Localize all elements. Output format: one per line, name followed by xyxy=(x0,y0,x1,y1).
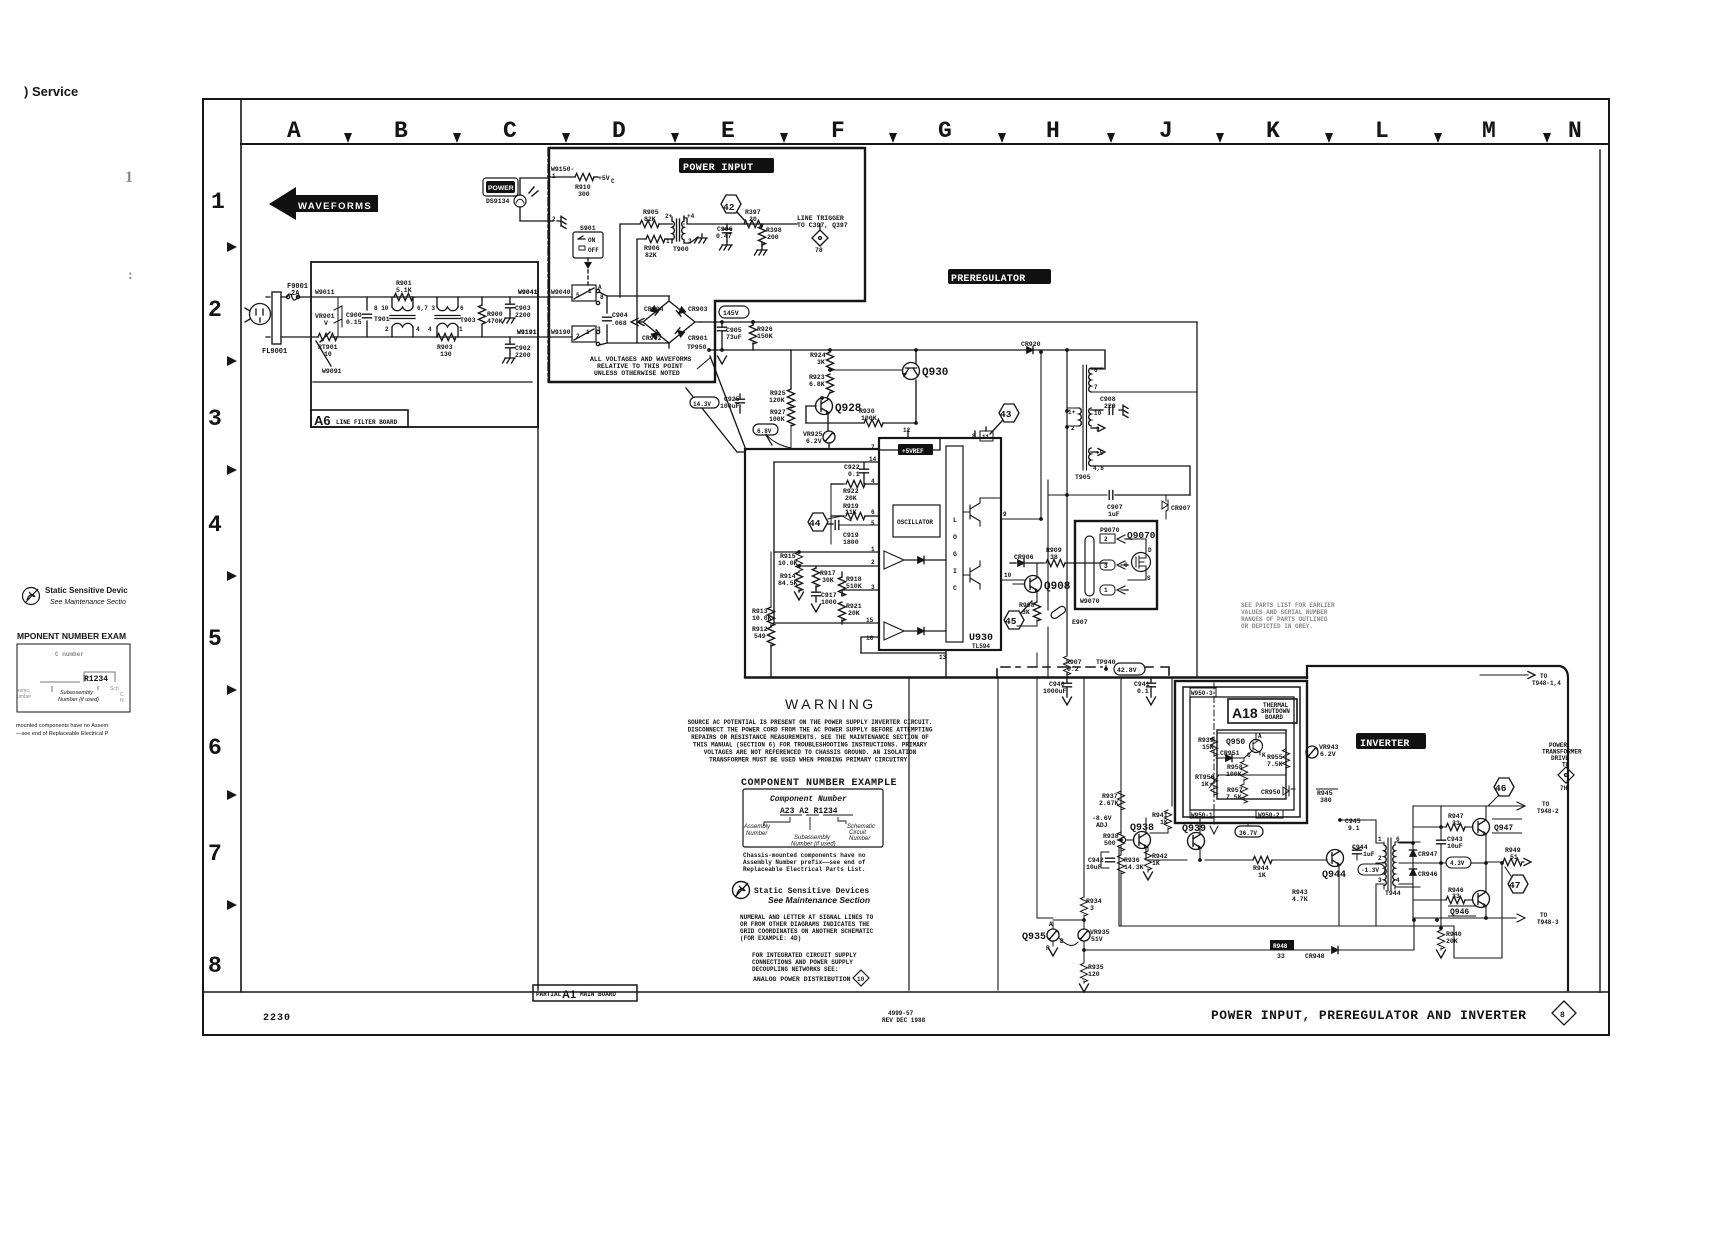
svg-text:78: 78 xyxy=(815,247,823,254)
svg-text:33: 33 xyxy=(1452,893,1460,900)
svg-text:S: S xyxy=(1147,575,1151,582)
svg-text:4: 4 xyxy=(416,326,420,333)
VR935 xyxy=(1078,929,1090,941)
svg-text:120: 120 xyxy=(1088,971,1100,978)
svg-text:6.2V: 6.2V xyxy=(1320,751,1336,758)
svg-text:2: 2 xyxy=(208,297,222,323)
svg-text:D: D xyxy=(612,118,626,144)
svg-text:3: 3 xyxy=(871,584,875,591)
svg-text:5: 5 xyxy=(871,520,875,527)
svg-text:6: 6 xyxy=(1094,367,1098,374)
svg-text:T905: T905 xyxy=(1075,474,1091,481)
svg-text:W950-2: W950-2 xyxy=(1258,812,1280,819)
TO T948-3 wire xyxy=(1413,914,1525,922)
svg-text:MAIN BOARD: MAIN BOARD xyxy=(580,991,616,998)
P9070 pin 2 box xyxy=(1100,534,1115,543)
C944 xyxy=(1353,850,1362,854)
svg-text:470K: 470K xyxy=(487,318,503,325)
svg-text:K: K xyxy=(1262,752,1266,759)
svg-text:8 10: 8 10 xyxy=(374,305,389,312)
A18 inner circuit box xyxy=(1217,730,1286,799)
CR907 zener xyxy=(1165,494,1167,496)
svg-text:R941: R941 xyxy=(1152,812,1168,819)
svg-text:CONNECTIONS AND POWER SUPPLY: CONNECTIONS AND POWER SUPPLY xyxy=(752,959,853,966)
row tick marks on left border xyxy=(227,242,237,910)
svg-text:R900: R900 xyxy=(487,311,503,318)
svg-text:TO: TO xyxy=(1542,801,1550,808)
svg-text:Assembly Number prefix——see en: Assembly Number prefix——see end of xyxy=(743,859,866,866)
svg-text:R927: R927 xyxy=(770,409,786,416)
svg-text:4: 4 xyxy=(208,512,222,538)
svg-text:0.47: 0.47 xyxy=(716,233,732,240)
pin 13 + bottom wire xyxy=(861,650,946,677)
R921 xyxy=(838,602,845,621)
svg-text:SEE PARTS LIST FOR EARLIER: SEE PARTS LIST FOR EARLIER xyxy=(1241,602,1335,609)
sheet number diamond xyxy=(1552,1001,1576,1025)
+5VREF box xyxy=(898,444,933,455)
power lamp DS9134 xyxy=(514,195,526,207)
svg-text:12: 12 xyxy=(903,427,911,434)
svg-text:DECOUPLING NETWORKS SEE:: DECOUPLING NETWORKS SEE: xyxy=(752,966,838,973)
R942 xyxy=(1144,851,1151,870)
CR906 R909 wire xyxy=(1010,562,1016,564)
svg-text:7: 7 xyxy=(208,841,222,867)
svg-text:1: 1 xyxy=(1378,836,1382,843)
svg-text:A23 A2 R1234: A23 A2 R1234 xyxy=(780,807,838,816)
svg-text:WARNING: WARNING xyxy=(785,696,877,712)
dashed bracket xyxy=(997,667,1102,678)
PARTIAL A1 MAIN BOARD xyxy=(533,985,637,1001)
R948 inverse label xyxy=(1270,940,1294,950)
svg-text:GRID COORDINATES ON ANOTHER SC: GRID COORDINATES ON ANOTHER SCHEMATIC xyxy=(740,928,874,935)
svg-text:C907: C907 xyxy=(1107,504,1123,511)
svg-text:1: 1 xyxy=(459,326,463,333)
svg-text:G: G xyxy=(953,551,957,558)
VR925 zener xyxy=(823,431,835,443)
transistor symbols in logic output xyxy=(970,498,980,526)
svg-text:R906: R906 xyxy=(644,245,660,252)
TO T948-1,4 arrow top xyxy=(1480,674,1528,676)
svg-text:VR925: VR925 xyxy=(803,431,823,438)
svg-text:R936: R936 xyxy=(1124,857,1140,864)
Q928 transistor xyxy=(816,398,833,415)
svg-text:120K: 120K xyxy=(769,397,785,404)
R935 xyxy=(1080,963,1087,982)
svg-text:Component Number: Component Number xyxy=(770,795,847,804)
svg-text:C941: C941 xyxy=(1134,681,1150,688)
svg-text:VR935: VR935 xyxy=(1090,929,1110,936)
diode CR951 xyxy=(1226,754,1232,761)
svg-text:WAVEFORMS: WAVEFORMS xyxy=(298,201,372,212)
svg-text:R908: R908 xyxy=(1019,602,1035,609)
svg-text:4.3V: 4.3V xyxy=(1450,860,1465,867)
CR920 diode xyxy=(1027,346,1033,353)
svg-text:13: 13 xyxy=(939,654,947,661)
hexagon 45 xyxy=(1004,611,1024,629)
svg-text:Number: Number xyxy=(746,831,768,837)
svg-text:Number (if used): Number (if used) xyxy=(791,842,836,848)
svg-text:R923: R923 xyxy=(809,374,825,381)
svg-text:CR950: CR950 xyxy=(1261,789,1281,796)
A1 board boundary vertical xyxy=(537,262,539,990)
svg-text:INVERTER: INVERTER xyxy=(1360,739,1410,750)
svg-text:T900: T900 xyxy=(673,246,689,253)
svg-text:3K: 3K xyxy=(1022,609,1030,616)
svg-text:2230: 2230 xyxy=(263,1013,291,1024)
svg-text:1000: 1000 xyxy=(821,599,837,606)
svg-text:G: G xyxy=(1247,752,1251,759)
145V oval xyxy=(719,306,749,318)
svg-text:C: C xyxy=(503,118,517,144)
svg-text:Subassembly: Subassembly xyxy=(60,690,94,696)
svg-text:R921: R921 xyxy=(846,603,862,610)
svg-text:38: 38 xyxy=(1050,554,1058,561)
W950 connectors xyxy=(1190,688,1216,697)
svg-text:A18: A18 xyxy=(1232,705,1258,721)
R938 xyxy=(1117,832,1124,851)
top corner bracket right xyxy=(1544,666,1553,700)
svg-text:TO C397, Q397: TO C397, Q397 xyxy=(797,222,848,229)
T944 pin wires xyxy=(1376,843,1384,926)
R925 R927 resistors xyxy=(790,350,792,389)
svg-text:7.5K: 7.5K xyxy=(1226,794,1242,801)
svg-text:1uF: 1uF xyxy=(1108,511,1120,518)
varistor VR901 xyxy=(334,297,342,337)
diode CR950 xyxy=(1283,786,1295,796)
svg-text:R948: R948 xyxy=(1273,943,1288,950)
C922 xyxy=(863,462,865,468)
svg-text:D: D xyxy=(1148,547,1152,554)
svg-text:A: A xyxy=(287,118,301,144)
resistor R939 xyxy=(1210,737,1217,756)
svg-text:30K: 30K xyxy=(822,577,834,584)
svg-text:Number (if used): Number (if used) xyxy=(58,697,99,703)
svg-text:3: 3 xyxy=(1090,905,1094,912)
svg-text:RT950: RT950 xyxy=(1195,774,1215,781)
svg-text:R917: R917 xyxy=(820,570,836,577)
svg-text:7: 7 xyxy=(871,444,875,451)
OSCILLATOR box xyxy=(893,505,940,537)
svg-text:C945: C945 xyxy=(1345,818,1361,825)
RT901 thermistor xyxy=(318,333,337,340)
36.7V oval xyxy=(1247,823,1249,826)
svg-text:TO: TO xyxy=(1562,762,1570,769)
svg-text:130: 130 xyxy=(440,351,452,358)
svg-text:549: 549 xyxy=(754,633,766,640)
static sensitive icon (margin) xyxy=(23,588,40,605)
svg-text:R934: R934 xyxy=(1086,898,1102,905)
R924 resistor xyxy=(829,350,831,352)
transistor Q947 xyxy=(1473,819,1490,836)
svg-text:C: C xyxy=(611,178,615,185)
svg-text:TL594: TL594 xyxy=(972,643,990,650)
svg-text:POWER INPUT: POWER INPUT xyxy=(683,163,753,174)
svg-text:LINE FILTER BOARD: LINE FILTER BOARD xyxy=(336,419,398,426)
svg-text:100uF: 100uF xyxy=(720,403,740,410)
svg-text:1K: 1K xyxy=(1201,781,1209,788)
svg-text:COMPONENT NUMBER EXAMPLE: COMPONENT NUMBER EXAMPLE xyxy=(741,778,897,789)
svg-text:73uF: 73uF xyxy=(726,334,742,341)
comparator 2 xyxy=(884,622,904,640)
R949 out xyxy=(1486,861,1503,863)
svg-text:R918: R918 xyxy=(846,576,862,583)
diamond 78 xyxy=(812,224,828,246)
svg-text:W9191: W9191 xyxy=(517,329,537,336)
svg-text:6: 6 xyxy=(460,305,464,312)
svg-text:VR943: VR943 xyxy=(1319,744,1339,751)
svg-text:RANGES OF PARTS OUTLINED: RANGES OF PARTS OUTLINED xyxy=(1241,616,1328,623)
svg-text:C943: C943 xyxy=(1447,836,1463,843)
C942 R936 xyxy=(1101,852,1109,868)
svg-text:Q950: Q950 xyxy=(1226,738,1245,747)
Q939 xyxy=(1188,833,1205,850)
svg-text:OR FROM OTHER DIAGRAMS INDICAT: OR FROM OTHER DIAGRAMS INDICATES THE xyxy=(740,921,870,928)
svg-text:CR920: CR920 xyxy=(1021,341,1041,348)
svg-text:4999-57: 4999-57 xyxy=(888,1010,914,1017)
POWER button xyxy=(483,178,518,196)
resistor R947 xyxy=(1413,826,1446,828)
pin 8 11 xyxy=(980,431,993,441)
pins 1,2 wires xyxy=(774,552,879,566)
svg-text:A: A xyxy=(1258,733,1262,740)
resistor R957 xyxy=(1240,784,1247,803)
svg-text:Chassis-mounted components hav: Chassis-mounted components have no xyxy=(743,852,866,859)
svg-text:See Maintenance Sectio: See Maintenance Sectio xyxy=(50,599,126,606)
svg-text:C903: C903 xyxy=(515,305,531,312)
svg-text:10: 10 xyxy=(324,351,332,358)
14.3V oval xyxy=(690,397,719,408)
preregulator box left edge + top xyxy=(745,449,879,676)
svg-text:CR904: CR904 xyxy=(644,306,664,313)
svg-text:PARTIAL: PARTIAL xyxy=(536,991,562,998)
svg-text:44: 44 xyxy=(809,518,821,529)
svg-text:W9150-: W9150- xyxy=(551,166,574,173)
svg-text:15: 15 xyxy=(866,617,874,624)
svg-text:2+: 2+ xyxy=(665,213,673,220)
A18 board nested boxes xyxy=(1175,681,1307,823)
PREREGULATOR title xyxy=(948,269,1051,284)
svg-text:C902: C902 xyxy=(515,345,531,352)
svg-text:7.5K: 7.5K xyxy=(1267,761,1283,768)
junction dots xyxy=(751,320,1504,930)
svg-text:R940: R940 xyxy=(1446,931,1462,938)
svg-text:1: 1 xyxy=(588,288,592,295)
svg-text:K: K xyxy=(1266,118,1280,144)
E907 fusible link xyxy=(1047,602,1049,677)
T901 transformer xyxy=(392,297,413,337)
power transformer drive diamond xyxy=(1558,767,1574,783)
svg-text:20: 20 xyxy=(749,216,757,223)
svg-text:1K: 1K xyxy=(1160,819,1168,826)
R901 resistor xyxy=(394,293,413,300)
svg-text:CR948: CR948 xyxy=(1305,953,1325,960)
C904 cap xyxy=(606,296,608,343)
power input section outline xyxy=(549,148,865,382)
svg-text:1K: 1K xyxy=(1152,860,1160,867)
CR947 CR946 column on x=1413 xyxy=(1399,806,1413,918)
svg-text:43: 43 xyxy=(1000,409,1012,420)
hexagon 46 xyxy=(1494,778,1514,796)
R944 + wire to Q944 xyxy=(1205,859,1253,861)
svg-text:2: 2 xyxy=(1104,536,1108,543)
svg-text:O: O xyxy=(953,534,957,541)
svg-text:R939: R939 xyxy=(1198,737,1214,744)
svg-text:CR902: CR902 xyxy=(642,335,662,342)
static sensitive icon xyxy=(733,882,750,899)
inner bottom line xyxy=(203,991,1609,993)
svg-text:100K: 100K xyxy=(861,415,877,422)
Q908 xyxy=(1025,576,1042,593)
svg-text:E: E xyxy=(721,118,735,144)
svg-text:150K: 150K xyxy=(757,333,773,340)
INVERTER title xyxy=(1356,733,1426,749)
svg-text:A6: A6 xyxy=(314,413,331,428)
hexagon 44 + C919 to pin 5 xyxy=(808,513,828,531)
svg-text:500: 500 xyxy=(1104,840,1116,847)
svg-text:2.67K: 2.67K xyxy=(1099,800,1119,807)
svg-text:11K: 11K xyxy=(845,509,857,516)
svg-text:2: 2 xyxy=(552,216,556,223)
svg-text:R909: R909 xyxy=(1046,547,1062,554)
A6 label box xyxy=(311,410,408,427)
op-amp U930 outline xyxy=(879,438,1001,650)
svg-text:Replaceable Electrical Parts L: Replaceable Electrical Parts List. xyxy=(743,866,865,873)
svg-text:6.8K: 6.8K xyxy=(809,381,825,388)
svg-text:A: A xyxy=(1049,921,1053,928)
W9070 connector oval xyxy=(1085,536,1094,596)
svg-text:C922: C922 xyxy=(844,464,860,471)
svg-text:T944: T944 xyxy=(1385,890,1401,897)
svg-text:W9040: W9040 xyxy=(551,289,571,296)
R922 to pin 4 xyxy=(831,483,844,485)
svg-text:W9091: W9091 xyxy=(322,368,342,375)
svg-text:16: 16 xyxy=(866,635,874,642)
svg-text:CR947: CR947 xyxy=(1418,851,1438,858)
svg-text:14: 14 xyxy=(869,456,877,463)
svg-text:220: 220 xyxy=(1104,403,1116,410)
svg-text:11: 11 xyxy=(982,434,990,441)
R907 + TP940 + 42.8V xyxy=(1066,655,1068,657)
svg-text:UNLESS OTHERWISE NOTED: UNLESS OTHERWISE NOTED xyxy=(594,370,680,377)
svg-text:umber: umber xyxy=(17,694,32,700)
inner box lines xyxy=(1119,847,1312,926)
svg-text:R924: R924 xyxy=(810,352,826,359)
svg-text:2200: 2200 xyxy=(515,312,531,319)
svg-text::: : xyxy=(128,268,133,283)
TP950 + ground xyxy=(709,349,1028,351)
thermistor RT950 xyxy=(1210,776,1217,795)
svg-text:VOLTAGES ARE NOT REFERENCED TO: VOLTAGES ARE NOT REFERENCED TO CHASSIS G… xyxy=(704,749,917,756)
svg-text:Q939: Q939 xyxy=(1182,824,1206,835)
svg-text:W9011: W9011 xyxy=(315,289,335,296)
svg-text:C904: C904 xyxy=(612,312,628,319)
C907 wire xyxy=(1048,480,1107,602)
svg-text:2A: 2A xyxy=(291,290,300,298)
svg-text:T948-3: T948-3 xyxy=(1537,919,1559,926)
svg-text:BOARD: BOARD xyxy=(1265,714,1283,721)
W9150 vertical wire xyxy=(547,148,549,382)
C925 cap xyxy=(739,394,741,413)
resistor R946 xyxy=(1413,899,1446,901)
R908 xyxy=(1010,588,1013,598)
C941 xyxy=(1150,678,1152,682)
svg-text:ON: ON xyxy=(588,237,596,244)
svg-text:C905: C905 xyxy=(726,327,742,334)
svg-text:R915: R915 xyxy=(780,553,796,560)
wire pin13 to bottom xyxy=(944,652,946,654)
svg-text:C908: C908 xyxy=(1100,396,1116,403)
column letters xyxy=(287,118,1582,144)
R913 R912 chain xyxy=(762,564,775,566)
svg-text:14.3K: 14.3K xyxy=(1124,864,1144,871)
svg-text:C940: C940 xyxy=(1049,681,1065,688)
svg-text:NUMERAL AND LETTER AT SIGNAL L: NUMERAL AND LETTER AT SIGNAL LINES TO xyxy=(740,914,874,921)
T905 transformer xyxy=(1083,365,1087,470)
svg-text:0.1: 0.1 xyxy=(1137,688,1149,695)
svg-text:THIS MANUAL (SECTION 6) FOR TR: THIS MANUAL (SECTION 6) FOR TROUBLESHOOT… xyxy=(693,742,927,749)
svg-text:4: 4 xyxy=(1396,877,1400,884)
Q944 xyxy=(1327,850,1344,867)
svg-text:SOURCE AC POTENTIAL IS PRESENT: SOURCE AC POTENTIAL IS PRESENT ON THE PO… xyxy=(688,719,933,726)
svg-text:C919: C919 xyxy=(843,532,859,539)
diagonal leads into prereg box xyxy=(686,356,746,452)
T900 secondary to line trigger wire xyxy=(683,216,685,224)
svg-text:4.7K: 4.7K xyxy=(1292,896,1308,903)
R905/R906 wires to T900 xyxy=(620,224,640,297)
svg-text:F: F xyxy=(831,118,845,144)
svg-text:C917: C917 xyxy=(821,592,837,599)
svg-text:Q938: Q938 xyxy=(1130,823,1154,834)
svg-text:4: 4 xyxy=(428,326,432,333)
svg-text:1: 1 xyxy=(211,189,225,215)
svg-text:mounted components have no Ass: mounted components have no Assem xyxy=(16,723,108,729)
letters strip line xyxy=(241,143,1609,145)
pins 15,16 wires xyxy=(774,623,879,653)
C902 cap + chassis gnd xyxy=(509,337,511,343)
svg-text:R: R xyxy=(1046,945,1050,952)
svg-text:100K: 100K xyxy=(1226,771,1242,778)
svg-text:R926: R926 xyxy=(757,326,773,333)
svg-text:9: 9 xyxy=(1096,426,1100,433)
svg-text:W950-1: W950-1 xyxy=(1191,812,1213,819)
pointer line from note to TP950 xyxy=(697,357,711,369)
svg-text:20K: 20K xyxy=(848,610,860,617)
Q930 transistor xyxy=(903,363,920,380)
AC plug P9001 xyxy=(250,304,271,325)
svg-text:CR903: CR903 xyxy=(688,306,708,313)
svg-text:10: 10 xyxy=(857,976,865,983)
R923 resistor xyxy=(826,374,833,393)
svg-text:POWER INPUT, PREREGULATOR AND: POWER INPUT, PREREGULATOR AND INVERTER xyxy=(1211,1008,1526,1023)
Q9070 FET xyxy=(1132,553,1151,572)
svg-text:1: 1 xyxy=(666,238,670,245)
svg-text:C942: C942 xyxy=(1088,857,1104,864)
svg-text:E907: E907 xyxy=(1072,619,1088,626)
svg-text:1+: 1+ xyxy=(1068,409,1076,416)
svg-text:R922: R922 xyxy=(843,488,859,495)
svg-text:Q944: Q944 xyxy=(1322,870,1346,881)
svg-text:R947: R947 xyxy=(1448,813,1464,820)
row numbers xyxy=(208,189,225,979)
svg-text:84.5K: 84.5K xyxy=(778,580,798,587)
svg-text:+5VREF: +5VREF xyxy=(902,448,924,455)
wire to T905 pin 6 xyxy=(1067,350,1105,369)
pin 10 wire to Q908 xyxy=(980,580,1024,589)
svg-text:6: 6 xyxy=(208,735,222,761)
R910 wire to +5V xyxy=(548,176,575,178)
svg-text:R957: R957 xyxy=(1227,787,1243,794)
svg-text:42.8V: 42.8V xyxy=(1117,667,1137,674)
